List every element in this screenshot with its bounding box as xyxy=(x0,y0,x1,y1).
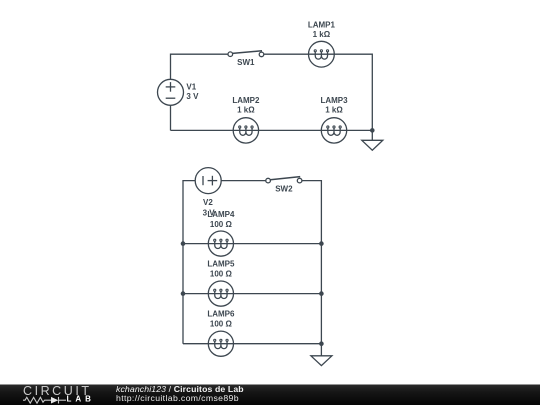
wire SW2 to right rail xyxy=(302,181,322,356)
junction dots row LAMP5 xyxy=(181,291,186,296)
ground top circuit xyxy=(362,140,383,150)
svg-text:V2: V2 xyxy=(203,198,213,207)
junction dots row LAMP4 xyxy=(181,241,186,246)
wire row LAMP4 xyxy=(183,243,208,245)
svg-text:LAMP2: LAMP2 xyxy=(232,96,260,105)
svg-text:LAMP1: LAMP1 xyxy=(308,20,336,29)
svg-text:LAMP6: LAMP6 xyxy=(207,310,235,319)
svg-text:100 Ω: 100 Ω xyxy=(210,320,233,329)
svg-text:1 kΩ: 1 kΩ xyxy=(313,30,331,39)
lamp LAMP2 xyxy=(233,118,258,143)
svg-text:LAB: LAB xyxy=(67,395,95,404)
label LAMP4 100Ω xyxy=(207,210,235,229)
wire row LAMP5 xyxy=(183,293,208,295)
svg-text:SW1: SW1 xyxy=(237,58,255,67)
svg-text:V1: V1 xyxy=(186,82,196,91)
junction dot top circuit xyxy=(370,128,375,133)
wire row LAMP6 xyxy=(183,343,208,345)
svg-text:1 kΩ: 1 kΩ xyxy=(237,106,255,115)
switch SW2 xyxy=(266,177,302,183)
wire SW1 to LAMP1 xyxy=(264,53,309,55)
switch SW1 xyxy=(228,51,264,57)
label LAMP5 100Ω xyxy=(207,260,235,279)
lamp LAMP3 xyxy=(321,118,346,143)
label V1 3V xyxy=(186,82,199,101)
wire V1 bottom to bottom rail xyxy=(170,105,172,130)
junction dot row LAMP6 right xyxy=(319,341,324,346)
wire LAMP3 to right rail xyxy=(347,129,373,131)
wire V2 right to SW2 xyxy=(221,180,266,182)
label V2 3V xyxy=(203,198,216,218)
svg-text:LAMP3: LAMP3 xyxy=(320,96,348,105)
lamp LAMP6 xyxy=(208,331,233,356)
svg-text:1 kΩ: 1 kΩ xyxy=(325,106,343,115)
svg-text:LAMP5: LAMP5 xyxy=(207,260,235,269)
label LAMP1 1kΩ xyxy=(308,20,336,39)
label LAMP6 100Ω xyxy=(207,310,235,329)
wire bottom rail left to LAMP2 xyxy=(171,129,234,131)
voltage source V1 xyxy=(158,79,184,105)
logo resistor zigzag and diode xyxy=(23,397,66,404)
svg-text:SW2: SW2 xyxy=(275,185,293,194)
wire LAMP1 to right corner and down xyxy=(334,54,372,140)
svg-text:100 Ω: 100 Ω xyxy=(210,270,233,279)
svg-text:LAMP4: LAMP4 xyxy=(207,210,235,219)
lamp LAMP1 xyxy=(309,41,335,67)
wire top-left to SW1 xyxy=(171,54,229,79)
wire V2 left to left rail xyxy=(183,181,195,344)
label LAMP2 1kΩ xyxy=(232,96,260,115)
label LAMP3 1kΩ xyxy=(320,96,348,115)
lamp LAMP5 xyxy=(208,281,233,306)
svg-text:3 V: 3 V xyxy=(186,92,199,101)
svg-text:100 Ω: 100 Ω xyxy=(210,220,233,229)
svg-text:http://circuitlab.com/cmse89b: http://circuitlab.com/cmse89b xyxy=(116,393,239,403)
wire LAMP2 to LAMP3 xyxy=(259,129,322,131)
ground bottom circuit xyxy=(311,356,332,366)
footer bar background xyxy=(0,385,540,405)
voltage source V2 xyxy=(195,168,221,194)
lamp LAMP4 xyxy=(208,231,233,256)
